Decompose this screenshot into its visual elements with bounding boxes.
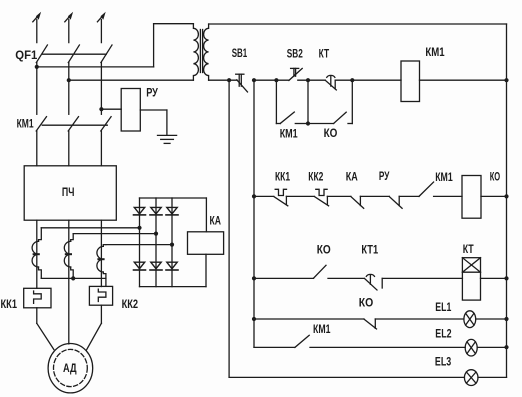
diode top 3: [166, 207, 178, 215]
transformer TV primary winding: [193, 24, 198, 80]
svg-text:КТ1: КТ1: [361, 242, 378, 256]
svg-text:КК2: КК2: [308, 170, 323, 184]
node right rail row2: [504, 194, 508, 198]
wire EL3 to right rail: [478, 376, 507, 378]
wire TA2 secondary to rectifier: [73, 233, 156, 235]
wire KT coil to right rail: [481, 277, 507, 279]
node right rail row3: [504, 276, 508, 280]
pushbutton SB2: [289, 68, 302, 80]
wire EL2 to right rail: [477, 346, 506, 348]
supply arrow L3: [97, 12, 105, 43]
wire KK1 to motor: [37, 308, 54, 350]
svg-text:КМ1: КМ1: [313, 322, 331, 336]
wire KM1 aux to node: [295, 123, 308, 125]
wire phase3 below PCH: [100, 220, 102, 286]
svg-text:РУ: РУ: [146, 86, 158, 100]
node row2 left: [252, 194, 256, 198]
transformer TV core: [200, 30, 202, 73]
wire phase1 QF1 to KM1: [36, 63, 38, 115]
wire SB1 to SB2: [254, 79, 289, 81]
wire row5 left: [254, 346, 295, 348]
circuit breaker QF1: [36, 45, 112, 63]
diode bottom 3: [166, 262, 178, 270]
wire common of CT secondaries: [41, 277, 106, 279]
wire rectifier top bus: [140, 198, 207, 232]
svg-text:КК1: КК1: [1, 297, 18, 311]
wire node to KO contact: [308, 123, 334, 125]
node SB2 left: [274, 78, 278, 82]
node right rail row4: [504, 317, 508, 321]
node right rail row1: [504, 78, 508, 82]
wire phase3 tap to relay RU: [101, 108, 121, 110]
contact KM1 aux NO (seal-in): [280, 112, 294, 123]
node TA2 common junction: [71, 276, 75, 280]
wire KK1 to KK2: [286, 195, 314, 197]
svg-text:АД: АД: [63, 361, 77, 375]
wire phase2 below PCH to motor: [68, 220, 70, 344]
wire rectifier branch 3: [171, 198, 173, 287]
wire KO to KT1: [328, 277, 365, 279]
thermal relay heater KK2: [89, 286, 112, 305]
wire TA3 secondary to rectifier: [106, 244, 172, 246]
node phase1 tap: [35, 65, 39, 69]
lamp EL2: [465, 339, 477, 356]
contact RU NC: [389, 196, 402, 208]
wire row6 bottom: [229, 376, 464, 378]
wire control right rail: [506, 24, 508, 377]
contact KO NO row3: [314, 265, 327, 278]
contactor KM1 power contacts: [36, 117, 111, 131]
contact KT1 time-delay NC: [365, 274, 383, 290]
wire KM1 coil to right rail: [420, 79, 507, 81]
frequency converter PCH box: [24, 166, 116, 220]
svg-text:КО: КО: [317, 242, 331, 256]
current transformer TA3 winding: [97, 245, 106, 287]
svg-text:EL1: EL1: [435, 300, 451, 314]
wire row3 left: [254, 277, 314, 279]
svg-text:КК1: КК1: [275, 170, 290, 184]
contact KO NO branch: [334, 112, 347, 123]
contact KK2 thermal NC: [314, 189, 328, 206]
wire row4 left: [254, 318, 364, 320]
contact KM1 NO row5: [295, 335, 309, 347]
node TA2 rectifier input: [154, 232, 158, 236]
thermal relay heater KK1: [24, 288, 51, 308]
wire SB2 branch dropper: [276, 80, 280, 123]
node SB1 right: [252, 78, 256, 82]
pushbutton SB1: [236, 74, 248, 92]
wire rectifier branch 2: [155, 198, 157, 287]
wire rectifier bottom bus: [140, 254, 207, 286]
svg-text:КА: КА: [346, 169, 358, 183]
wire phase2 QF1 to KM1: [68, 63, 70, 115]
svg-text:КМ1: КМ1: [435, 170, 453, 184]
wire RU to ground: [140, 110, 167, 135]
wire branch node riser: [307, 80, 309, 123]
node phase2 tap: [67, 78, 71, 82]
transformer TV secondary winding: [204, 24, 209, 80]
wire secondary bottom to SB1: [209, 79, 237, 81]
svg-text:КМ1: КМ1: [17, 116, 34, 130]
contact KO NC row4: [364, 319, 377, 329]
node row3 left: [252, 276, 256, 280]
wire SB2 to KT: [298, 79, 325, 81]
time relay KT: [462, 258, 480, 300]
svg-text:КО: КО: [324, 126, 338, 140]
wire phase3 QF1 to KM1: [100, 63, 102, 115]
svg-text:EL3: EL3: [435, 354, 452, 368]
wire KK2 to motor: [87, 305, 102, 350]
node TA3 rectifier input: [170, 243, 174, 247]
current transformer TA1 winding: [32, 228, 41, 279]
svg-text:КТ: КТ: [463, 242, 474, 256]
wire KO coil to right rail: [481, 195, 507, 197]
lamp EL1: [464, 311, 476, 328]
wire KT to KM1 coil: [335, 79, 401, 81]
wire KM1 poles to PCH box: [37, 131, 102, 166]
svg-text:SB1: SB1: [232, 46, 248, 60]
svg-text:КМ1: КМ1: [425, 45, 444, 59]
node branch junction: [306, 121, 310, 125]
node phase3 tap: [99, 107, 103, 111]
current transformer TA2 winding: [64, 234, 73, 279]
svg-text:КК2: КК2: [122, 297, 139, 311]
svg-text:КТ: КТ: [319, 46, 330, 60]
wire KK2 to KA: [327, 195, 351, 197]
svg-text:КА: КА: [210, 214, 222, 228]
wire phase2 tap to transformer primary bottom: [69, 79, 194, 81]
motor AD: [48, 344, 93, 393]
contact KK1 thermal NC: [274, 189, 288, 206]
wire KM1 contact to KO coil: [434, 195, 462, 197]
wire RU to KM1 contact: [399, 195, 419, 197]
wire KO branch riser: [348, 80, 352, 123]
wire control top rail: [209, 23, 507, 25]
wire TA1 secondary to rectifier: [41, 227, 139, 229]
svg-text:КМ1: КМ1: [280, 127, 298, 141]
diode bottom 2: [150, 262, 162, 270]
diode bottom 1: [134, 262, 146, 270]
wire KO to lamp EL1: [375, 318, 464, 320]
lamp EL3: [464, 370, 478, 386]
svg-text:РУ: РУ: [379, 169, 390, 183]
svg-text:ПЧ: ПЧ: [62, 185, 75, 199]
node TA1 rectifier input: [137, 226, 141, 230]
wire EL1 to right rail: [476, 318, 507, 320]
wire KA to RU: [360, 195, 389, 197]
wire KM1 to lamp EL2: [310, 346, 465, 348]
wire KT1 to KT coil: [382, 277, 462, 279]
wire phase1 below PCH: [36, 220, 38, 288]
wire phase1 tap to transformer primary top: [37, 24, 194, 67]
relay coil KA: [188, 232, 224, 255]
contact KA NC: [351, 196, 364, 208]
diode top 1: [134, 207, 146, 215]
node KO branch right riser top: [350, 78, 354, 82]
svg-text:КО: КО: [359, 295, 374, 309]
wire control left rail: [228, 80, 230, 377]
node KT left branch: [306, 78, 310, 82]
contact KT time-delay NC: [325, 75, 336, 90]
wire row2 left: [254, 195, 274, 197]
supply arrow L2: [65, 12, 73, 43]
diode top 2: [150, 207, 162, 215]
node SB1 left: [227, 78, 231, 82]
wire dropper from SB1 right: [253, 80, 255, 347]
relay coil RU: [121, 89, 140, 132]
svg-text:SB2: SB2: [287, 46, 303, 60]
ground: [158, 135, 177, 143]
supply arrow L1: [33, 12, 41, 43]
node row4 left: [252, 317, 256, 321]
wire rectifier branch 1: [139, 198, 141, 287]
relay coil KO: [462, 176, 481, 219]
svg-text:EL2: EL2: [435, 327, 452, 341]
contactor coil KM1: [401, 61, 420, 102]
svg-text:КО: КО: [490, 170, 501, 184]
contact KM1 NO row2: [419, 182, 434, 196]
svg-text:QF1: QF1: [15, 48, 37, 62]
node right rail row5: [504, 345, 508, 349]
